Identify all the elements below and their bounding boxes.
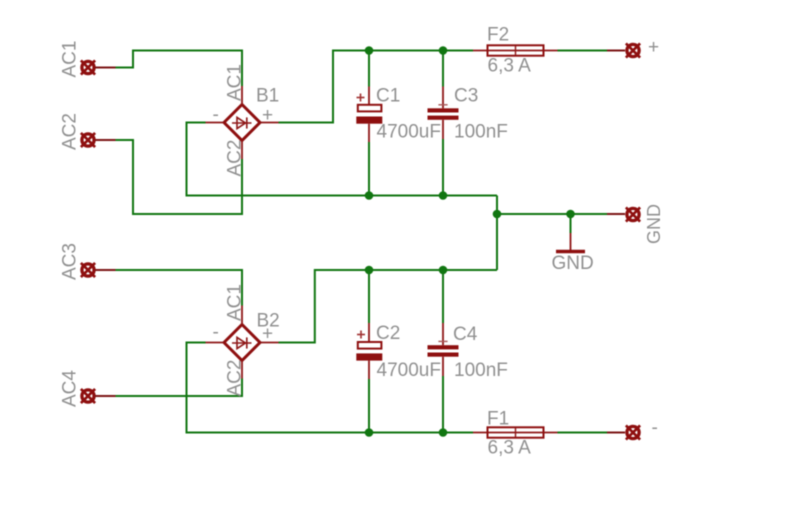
terminal AC1 xyxy=(60,41,116,78)
wire B1 minus rail to GND node xyxy=(187,123,498,196)
wire GND symbol stub xyxy=(570,214,572,233)
fuse F1 xyxy=(473,409,558,459)
svg-text:6,3 A: 6,3 A xyxy=(488,438,532,459)
wire C2 bottom to minus rail xyxy=(368,379,370,433)
B2 diode glyph xyxy=(232,337,252,348)
wire AC4 net: terminal AC4 to bridge B2 pin AC2 xyxy=(116,379,243,397)
wire AC2 net: terminal AC2 to bridge B1 pin AC2 xyxy=(116,140,243,214)
C3 plate bottom xyxy=(428,116,459,120)
svg-text:AC3: AC3 xyxy=(60,243,81,280)
svg-text:AC2: AC2 xyxy=(225,140,246,177)
svg-text:C1: C1 xyxy=(376,86,400,107)
svg-text:100nF: 100nF xyxy=(454,360,508,381)
B2 pin AC2 (bottom) xyxy=(241,361,243,379)
terminal minus output xyxy=(607,418,658,440)
B1 pin minus (left) xyxy=(206,122,225,124)
svg-text:C2: C2 xyxy=(376,323,400,344)
capacitor C1 (electrolytic 4700uF) xyxy=(356,86,441,143)
wire V+ net: fuse F2 to terminal + xyxy=(558,50,608,52)
wire C1 bottom to minus rail xyxy=(368,142,370,196)
B1 diode glyph xyxy=(232,117,252,128)
terminal GND output xyxy=(607,204,664,244)
wire C3 bottom to minus rail xyxy=(442,139,444,196)
svg-text:100nF: 100nF xyxy=(454,122,508,143)
junction node minus rail at C3 xyxy=(439,191,448,200)
svg-text:C4: C4 xyxy=(453,324,478,345)
wire C4 riser top xyxy=(442,270,444,323)
C2 positive plate (hollow) xyxy=(358,342,382,349)
svg-text:B1: B1 xyxy=(256,86,279,107)
junction node GND rail at ground symbol xyxy=(566,210,575,219)
C1 negative plate (solid) xyxy=(356,117,382,124)
svg-text:-: - xyxy=(213,105,219,126)
wire C4 bottom to minus rail xyxy=(442,376,444,433)
wire B2 minus rail to fuse F1 xyxy=(187,343,474,433)
svg-text:AC2: AC2 xyxy=(60,113,81,150)
svg-text:AC2: AC2 xyxy=(225,360,246,397)
junction node mid rail at C2 xyxy=(365,266,374,275)
terminal + output xyxy=(607,37,659,58)
svg-text:4700uF: 4700uF xyxy=(377,122,441,143)
svg-text:+: + xyxy=(262,324,273,345)
wire C2 riser top xyxy=(368,270,370,323)
C2 plus mark xyxy=(357,331,365,339)
junction node top rail at C1 xyxy=(365,46,374,55)
capacitor C3 (100nF) xyxy=(428,86,508,143)
capacitor C2 (electrolytic 4700uF) xyxy=(356,323,441,381)
svg-text:6,3 A: 6,3 A xyxy=(488,56,532,77)
junction node bottom rail at C2 xyxy=(365,428,374,437)
junction node mid rail at C4 xyxy=(439,266,448,275)
wire AC3 net: terminal AC3 to bridge B2 pin AC1 xyxy=(116,270,243,306)
B1 pin AC2 (bottom) xyxy=(241,141,243,160)
C4 tick mark xyxy=(438,340,447,342)
svg-text:AC1: AC1 xyxy=(225,284,246,321)
svg-text:AC4: AC4 xyxy=(60,370,81,407)
wire AC1 net: terminal AC1 to bridge B1 pin AC1 xyxy=(116,51,243,87)
junction node top rail at C3 xyxy=(439,46,448,55)
B2 pin AC1 (top) xyxy=(241,306,243,325)
bridge rectifier B1 xyxy=(206,64,280,176)
svg-text:AC1: AC1 xyxy=(60,41,81,78)
B2 pin minus (left) xyxy=(206,342,225,344)
terminal AC3 xyxy=(60,243,116,280)
B1 pin AC1 (top) xyxy=(241,86,243,105)
junction node minus rail at C1 xyxy=(365,191,374,200)
B2 pin plus (right) xyxy=(260,342,279,344)
svg-text:+: + xyxy=(262,105,273,126)
junction node GND rail at x=497 xyxy=(493,210,502,219)
svg-text:AC1: AC1 xyxy=(225,64,246,101)
capacitor C4 (100nF) xyxy=(428,323,508,381)
svg-text:-: - xyxy=(652,418,658,439)
wire GND rail to terminal GND xyxy=(497,213,607,215)
svg-text:C3: C3 xyxy=(454,86,478,107)
C3 plate top xyxy=(428,108,459,112)
terminal AC2 xyxy=(60,113,116,150)
svg-text:F1: F1 xyxy=(487,409,509,430)
wire GND vertical connector at x=497 xyxy=(496,196,498,271)
svg-text:4700uF: 4700uF xyxy=(377,360,441,381)
C1 plus mark xyxy=(357,94,365,102)
wire V+ net: B1 plus riser and top rail to fuse F2 xyxy=(279,51,474,123)
wire C3 riser top xyxy=(442,51,444,87)
svg-text:F2: F2 xyxy=(487,25,509,46)
B1 pin plus (right) xyxy=(260,122,279,124)
svg-text:GND: GND xyxy=(644,204,664,244)
svg-text:-: - xyxy=(213,322,219,343)
C4 plate bottom xyxy=(428,353,459,357)
terminal AC4 xyxy=(60,370,116,407)
C2 negative plate (solid) xyxy=(356,353,382,360)
junction node bottom rail at C4 xyxy=(439,428,448,437)
bridge rectifier B2 xyxy=(206,284,280,396)
svg-text:GND: GND xyxy=(552,253,594,274)
ground symbol GND xyxy=(552,233,594,274)
fuse F2 xyxy=(473,25,558,77)
wire fuse F1 to terminal minus xyxy=(558,432,608,434)
C4 plate top xyxy=(428,345,459,349)
svg-text:+: + xyxy=(648,37,659,58)
wire B2 plus riser and mid rail xyxy=(279,270,498,343)
C3 tick mark xyxy=(438,104,447,106)
wire C1 riser top xyxy=(368,51,370,87)
C1 positive plate (hollow) xyxy=(358,105,382,112)
